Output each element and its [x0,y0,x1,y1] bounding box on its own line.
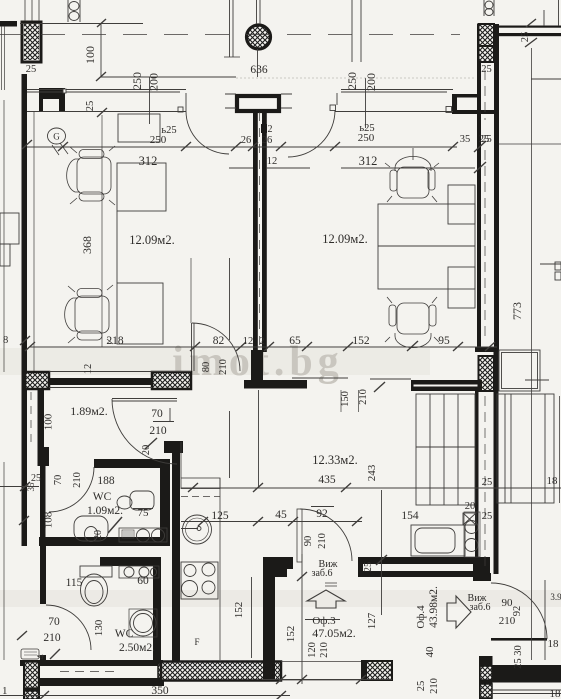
dim line y488 [181,487,561,489]
wall kitchen side vertical [172,443,180,662]
wall right outer line upper [494,24,499,352]
wall central stem lower solid [251,350,263,382]
wall hook lower central top [263,557,293,569]
arrow small dashed look [325,583,337,586]
wall SE corner vertical [479,656,493,699]
dashed axis line y34 [0,34,460,36]
WC1 door arc [49,467,94,512]
svg-text:210: 210 [358,389,369,405]
svg-text:25: 25 [482,477,493,488]
door room2 top leaf [336,93,338,105]
svg-text:2: 2 [259,336,264,347]
svg-text:25: 25 [481,64,492,75]
G leader lines [52,143,68,155]
wall south right piece [361,660,375,681]
door room2 top arc [288,110,335,157]
dim line y23 [20,23,143,25]
mark below x229 pair [224,56,240,58]
column hatched south right [366,661,392,680]
wall south lower line [23,678,164,686]
office door leaf [297,509,302,562]
wall south upper line [20,660,163,666]
ticks y521 [198,517,362,526]
svg-text:20: 20 [465,501,476,512]
Of3 strike line [305,619,340,621]
svg-text:115: 115 [66,577,83,589]
svg-text:26: 26 [262,135,273,146]
svg-text:25: 25 [31,473,41,484]
svg-text:26: 26 [241,135,252,146]
svg-text:заб.6: заб.6 [312,568,333,579]
wall WC2 top [100,557,161,566]
ticks bottom left [17,631,60,659]
entrance threshold lines [281,662,361,681]
wall right horizontal top arm lower line [499,33,561,36]
counter WC1 bottom [119,528,167,542]
svg-text:12.33м2.: 12.33м2. [312,453,357,467]
dim line y146 doors [27,146,457,148]
room1 south door arc [192,323,240,371]
svg-text:200: 200 [364,73,378,91]
svg-text:25: 25 [481,134,492,145]
svg-text:188: 188 [97,475,115,487]
tick left wall low [19,516,29,525]
svg-text:35: 35 [460,134,471,145]
dim vline x251 office left [251,577,253,658]
right door arc [491,583,547,639]
svg-text:312: 312 [359,154,378,168]
chair room1 lower [65,285,113,344]
pier room1 bottom left hatched [25,372,49,389]
wall office north bottom bar [358,571,478,577]
wall SE horizontal bar [492,665,561,683]
svg-text:250: 250 [150,134,167,146]
window2 jamb left [330,105,336,111]
svg-text:20: 20 [93,530,104,540]
entrance arrow [307,590,345,608]
svg-text:25: 25 [416,681,427,692]
dim vline x381 office [381,490,383,615]
svg-text:75: 75 [138,507,150,519]
leaders 150-210 labels [341,390,359,412]
ticks y679 [276,675,366,684]
desk room2 [378,204,475,289]
kitchen cabinet rect [181,478,220,489]
svg-text:18: 18 [547,475,559,487]
svg-text:210: 210 [218,359,229,375]
svg-text:12: 12 [267,156,278,167]
dim vline x531 full [531,48,533,660]
svg-text:125: 125 [211,510,229,522]
wall office north left cap [358,557,363,577]
ticks y146 [58,142,458,151]
dim vline x361 top [360,0,362,62]
wall right inner line mid [475,391,479,573]
svg-text:80: 80 [201,362,212,373]
svg-text:25: 25 [363,562,374,573]
wall right return step [452,94,497,114]
svg-text:152: 152 [285,626,297,643]
window room1 jambs [63,89,66,93]
overline 92 [311,506,334,508]
wall lower central stem [263,569,275,679]
door room1 top arc [186,111,229,154]
dim vline x149 [149,77,151,124]
door room1 top leaf [185,93,187,111]
svg-text:210: 210 [319,642,330,658]
ticks right wall y147 y168 [474,141,486,173]
wall left inner jog [38,447,50,466]
G circle [48,128,66,144]
threshold WC2 door [21,649,39,659]
pipes top-left [68,0,80,22]
svg-text:G: G [53,132,60,142]
wall left inner upper [38,390,45,447]
right area square [499,350,540,391]
corridor door leaf [112,399,177,402]
dim vline x302 entrance [301,554,303,684]
svg-text:250: 250 [358,132,375,144]
svg-text:12.09м2.: 12.09м2. [129,233,174,247]
wall right outer line mid [494,352,499,574]
vline above circle [257,0,261,77]
pier T center top [237,96,279,111]
kitchen sink circle [183,515,212,544]
svg-text:WC: WC [115,628,134,640]
dim line y679 entrance [263,679,392,681]
left edge vline [3,100,5,660]
left neighbor rects [0,213,19,244]
column hatched SE in wall [480,666,492,680]
wall central flag [244,380,307,389]
svg-text:47.05м2.: 47.05м2. [312,626,356,640]
wall kitchen top block [164,441,183,453]
wardrobe hall right [416,394,475,505]
chair room2 lower [385,297,439,348]
shelf line right of flag [292,377,348,379]
svg-text:90: 90 [303,536,314,547]
dim extension line x191 [190,258,192,323]
column hatched SE lower [480,684,492,698]
svg-text:218: 218 [106,335,124,347]
svg-text:WC: WC [93,491,112,503]
column hatched south left [23,660,40,699]
vline x352 top [351,0,353,62]
wall WC1 top [94,459,170,468]
door hinge block stem [261,124,267,133]
column hatched top-left fill [24,24,39,60]
svg-text:25: 25 [85,101,96,112]
tick 100 top [97,19,106,27]
column riser lines top-left [25,0,39,21]
wall WC2 left upper [40,546,46,604]
svg-text:2.50м2.: 2.50м2. [119,642,155,654]
right furniture edge line [559,396,561,503]
ticks on y347 [25,341,495,351]
room1 south door leaf [192,323,195,371]
dim vline x258 hall [258,390,260,488]
window room2 jamb [446,107,452,113]
right edge small rects [555,262,561,270]
wall WC2 left lower stub [40,655,46,662]
dim vline x101 [100,24,102,78]
watermark band 1 [0,348,430,375]
svg-text:350: 350 [151,685,169,697]
inner face line room1 left [33,112,35,371]
overline 75 [133,508,153,510]
tick left wall y341 [20,336,30,345]
wall arm horizontal left of right wall [411,380,482,391]
office door arc [300,509,352,561]
wall hook step [275,569,287,577]
wall right junction at y347 [475,347,499,352]
svg-text:4: 4 [36,655,47,660]
svg-text:435: 435 [318,474,336,486]
svg-text:108: 108 [43,511,55,528]
line y144 right [499,143,561,145]
left edge upper lines [2,26,5,90]
shelf line right mid [370,378,411,380]
svg-text:Оф.4: Оф.4 [415,605,427,629]
svg-text:95: 95 [438,335,450,347]
svg-text:25: 25 [520,32,531,43]
tick WC1 [108,517,122,533]
svg-text:210: 210 [149,425,167,437]
chair room1 upper [67,146,115,205]
svg-text:70: 70 [53,475,64,486]
svg-text:250: 250 [345,72,359,90]
wall line room2 top [335,90,453,112]
wall right door top jamb [475,573,491,581]
wall WC1 right [160,459,170,546]
svg-text:100: 100 [83,46,97,64]
dim ticks right top [525,19,537,47]
column hatched right top B [479,46,495,62]
svg-text:154: 154 [401,510,419,522]
WC2 door arc [46,605,91,650]
wall right inner line upper [477,24,481,347]
svg-text:70: 70 [151,408,163,420]
pipes top-right [484,0,494,16]
column hatched circle 636 [247,25,271,49]
table office top [411,525,465,556]
ticks y488 [188,483,351,492]
svg-text:25: 25 [26,64,37,75]
wall office north top bar [358,557,473,564]
tick at arm [374,382,385,392]
kitchen counter outline [181,442,220,660]
svg-text:243: 243 [366,464,378,481]
desk room1 upper [117,163,166,211]
dim vline x365 [365,78,367,128]
svg-text:210: 210 [43,632,61,644]
basin WC2 [119,566,159,578]
svg-text:200: 200 [147,73,161,91]
wall central stem left line [253,111,258,352]
svg-text:25 30: 25 30 [513,645,524,669]
tick entrance wall [297,572,307,581]
svg-text:368: 368 [80,236,94,254]
ticks y695 [39,691,286,699]
tick x101 y77 [22,72,107,149]
wall window return left [39,88,65,111]
dim line y168 [229,167,475,169]
wall south hatched band [161,662,281,681]
wall room1 bottom band [49,378,152,385]
svg-text:127: 127 [366,612,378,629]
left wall cavity dashes [30,392,32,445]
dashes central stem cavity [259,112,261,348]
office arrow right [447,596,471,628]
svg-text:43.98м2.: 43.98м2. [428,586,440,628]
svg-text:18: 18 [550,688,561,699]
svg-text:150: 150 [340,391,351,407]
svg-text:210: 210 [317,533,328,549]
svg-text:120: 120 [307,642,318,658]
tick at office wall [376,555,387,565]
svg-text:1.09м2.: 1.09м2. [87,505,123,517]
vlines x229 top [230,0,234,57]
svg-text:3.9: 3.9 [550,592,561,602]
kitchen stove [181,562,218,599]
sink WC1 [74,516,108,541]
right area tall rect [497,394,554,503]
furniture line room1 [116,211,118,283]
svg-text:12: 12 [83,364,94,375]
svg-text:92: 92 [316,508,328,520]
tick 20 kitchen top [145,438,157,449]
chair room2 upper [385,148,439,202]
dim vline x545 bottom [544,580,546,660]
watermark band 2 [0,590,561,607]
plant circles office [464,512,480,557]
svg-text:2: 2 [268,124,273,135]
svg-text:210: 210 [499,615,516,627]
wall left main upper [22,74,28,546]
dim line y77 [101,76,236,78]
band lines room1 bottom wall [49,372,191,388]
svg-text:210: 210 [72,472,83,488]
corridor door arc [112,399,177,464]
svg-text:152: 152 [352,335,370,347]
wall central stem right line [262,111,267,352]
toilet WC2 tank [80,566,112,577]
dim line y695 bottom [0,695,290,697]
svg-text:152: 152 [233,602,245,619]
svg-text:F: F [194,637,199,647]
dim vline x229 mid [229,258,231,478]
wall WC2 right [153,557,161,662]
wall right block at office corner [473,557,490,581]
svg-text:82: 82 [213,335,225,347]
svg-text:130: 130 [93,619,105,636]
svg-text:210: 210 [429,678,440,694]
svg-text:заб.6: заб.6 [470,602,491,613]
line right edge [544,0,559,26]
svg-text:35: 35 [26,482,36,492]
svg-text:312: 312 [139,154,158,168]
faint dim line y78 [236,77,475,79]
svg-text:20: 20 [141,445,152,456]
svg-text:8: 8 [3,335,8,346]
pier room1 bottom right hatched [152,372,191,389]
svg-text:45: 45 [275,509,287,521]
svg-text:12: 12 [243,336,254,347]
column hatched right mid [479,356,495,391]
wall WC1 bottom [39,537,170,546]
dim vline x102 room1 [101,115,103,347]
dim line y347 [30,346,497,348]
svg-text:25: 25 [482,511,493,522]
kitchen counter dashed line [181,496,220,498]
radiator room1 [118,114,160,142]
dim line bottom right [492,690,561,694]
svg-text:65: 65 [289,335,301,347]
toilet WC2 bowl [81,574,108,606]
wall top-left edge bar [0,21,17,27]
dim line left y486 [0,486,39,488]
dashes in right wall cavity [484,70,486,570]
svg-text:12.09м2.: 12.09м2. [322,232,367,246]
svg-text:636: 636 [250,64,268,76]
dim hline y79 right [531,78,561,80]
column hatched top-left border [22,22,41,62]
column hatched south mid [158,663,180,678]
svg-text:250: 250 [130,72,144,90]
washing machine WC2 [129,609,157,637]
door right leaf [491,638,547,641]
svg-text:60: 60 [137,575,149,587]
window room1 lines [27,90,186,112]
svg-text:1.89м2.: 1.89м2. [70,404,108,418]
column hatched right top A [479,24,495,46]
svg-text:100: 100 [43,413,55,430]
toilet WC1 [130,491,154,510]
connector square with X [463,513,476,525]
svg-text:18: 18 [548,638,560,650]
desk room1 lower [117,283,163,344]
wall line pier gap left [225,94,292,108]
svg-text:70: 70 [48,616,60,628]
svg-text:1: 1 [2,685,8,697]
dim line y521 [181,521,362,523]
dim leader 70-210 corridor [153,408,174,422]
wall WC1 left [40,466,46,546]
svg-text:40: 40 [424,646,436,658]
wall right horizontal top arm [499,26,561,28]
dashes south wall cavity [60,671,120,673]
svg-text:773: 773 [510,302,524,320]
